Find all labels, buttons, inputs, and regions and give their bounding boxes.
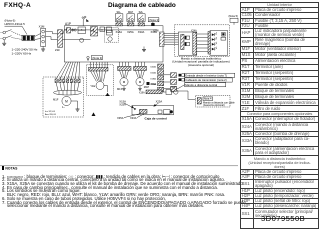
power supply PS block [91, 27, 98, 36]
connector X33A [138, 23, 144, 26]
svg-text:M1S: M1S [117, 87, 123, 91]
wired remote nota4 dashed box [196, 96, 231, 108]
svg-text:S2L: S2L [139, 11, 144, 14]
motor M1F [62, 96, 71, 105]
svg-text:1~: 1~ [62, 106, 65, 109]
svg-text:X40A: X40A [150, 66, 156, 69]
optional capacitor dashed box [105, 28, 119, 42]
diode bridge V1R [78, 27, 86, 34]
model title FXHQ-A [4, 2, 31, 9]
svg-text:X18A: X18A [150, 77, 156, 80]
relay K1 on A2P [185, 36, 190, 39]
Y1E connector strip [89, 67, 109, 71]
ground under X1M [42, 46, 44, 49]
svg-text:Nota 4: Nota 4 [204, 97, 212, 101]
svg-text:X33A: X33A [130, 116, 137, 120]
wireless receiver dashed box [175, 25, 230, 57]
noise filter Z1F [58, 30, 63, 48]
annotation mando central [185, 83, 226, 87]
svg-text:Aux 28,6 Ω: Aux 28,6 Ω [45, 113, 56, 116]
thermistor R1T [166, 90, 172, 95]
connector X35A mid [87, 56, 89, 58]
connector X15A [116, 23, 122, 26]
wire dashed L to cable block [12, 32, 23, 37]
expansion valve Y1E dashed box [87, 65, 114, 96]
svg-text:X2M: X2M [153, 29, 159, 33]
connector small 2 [107, 27, 112, 33]
svg-text:1~220V 60 Hz: 1~220V 60 Hz [12, 52, 32, 56]
svg-text:X15A: X15A [151, 83, 157, 86]
svg-text:X35A: X35A [117, 116, 124, 120]
supply ground [3, 40, 5, 43]
svg-text:(Nota 3): (Nota 3) [92, 56, 102, 60]
LED H3P [212, 43, 215, 46]
wire X1M to PCB upper [46, 32, 58, 34]
capacitor block [67, 28, 71, 33]
LED H2P [212, 38, 215, 41]
M1S fan wires [120, 70, 123, 77]
motor M1S [120, 78, 128, 86]
wire X1M to PCB lower [46, 37, 65, 40]
ground on PCB [143, 47, 145, 50]
connector stack column 2 [171, 73, 177, 78]
svg-text:R1T: R1T [172, 87, 177, 90]
wires A2P to A3P [197, 33, 208, 35]
drawing number [261, 214, 305, 223]
M1F connector pins [55, 77, 85, 82]
nota 3 mid label [92, 55, 103, 59]
svg-text:(Nota 5): (Nota 5) [229, 14, 239, 18]
svg-text:X25A: X25A [119, 102, 126, 106]
control box outline [132, 105, 174, 114]
internal bus wire [64, 29, 157, 31]
connector small 1 [100, 27, 105, 32]
KMP fan wires [136, 70, 139, 77]
wire cable to X1M lower [35, 39, 41, 40]
motor M1P [136, 78, 144, 86]
svg-text:(Asesoría opcional): (Asesoría opcional) [203, 104, 225, 107]
svg-text:Ins 32,5 Ω: Ins 32,5 Ω [45, 111, 55, 113]
parts table [240, 2, 319, 229]
LED H1P [212, 33, 215, 36]
annotation cableado transmision [179, 78, 182, 81]
svg-text:Z1F: Z1F [55, 48, 60, 52]
swing motor M1S connector [118, 66, 132, 70]
wire cable to X1M upper [35, 34, 41, 37]
supply terminal L [3, 31, 6, 34]
svg-text:Cableado de transmisión (nota: Cableado de transmisión (nota 2) [185, 78, 226, 82]
PCB A2P [178, 32, 196, 55]
svg-text:(Asesoría opcional): (Asesoría opcional) [188, 63, 214, 67]
svg-text:Mando a distancia central: Mando a distancia central [185, 83, 217, 87]
ground Y1E [104, 85, 108, 87]
relay K2 on A2P [185, 42, 190, 45]
separator line above notes [0, 165, 238, 167]
drain pump KMP connector [134, 66, 147, 70]
M1F winding fan [56, 83, 58, 91]
svg-text:X1M: X1M [39, 25, 45, 29]
wire nota4 to stack [177, 91, 196, 100]
svg-text:X25A: X25A [127, 30, 134, 34]
svg-text:S1L: S1L [117, 11, 122, 14]
ground M1F [71, 100, 77, 102]
LED H4P [212, 48, 215, 51]
svg-text:X24A: X24A [191, 29, 197, 32]
wires PCB to Y1E strip [90, 62, 92, 67]
svg-text:M: M [139, 80, 142, 84]
fan motor M1F dashed box [43, 77, 84, 117]
svg-text:H05VV-F3G2.5: H05VV-F3G2.5 [5, 22, 26, 26]
svg-text:X33A: X33A [138, 30, 145, 34]
svg-text:X19A: X19A [139, 91, 145, 94]
push button BS1 [222, 33, 226, 37]
wire dashed N to cable block [12, 38, 23, 40]
black triangle mark [92, 112, 96, 116]
nota 3 label top [148, 18, 159, 22]
svg-text:X15A: X15A [116, 30, 123, 34]
valve Y1E body [96, 82, 104, 90]
field cable marker [22, 35, 35, 41]
svg-text:(Nota 3): (Nota 3) [149, 18, 159, 22]
M1F winding [54, 90, 82, 95]
wires X2M to receiver [164, 32, 178, 34]
svg-text:M1P: M1P [144, 85, 150, 89]
connector stack column 1 [158, 64, 164, 68]
svg-text:Entrada desde el exterior (not: Entrada desde el exterior (nota 7) [185, 74, 227, 78]
supply terminal N [3, 37, 6, 40]
selector switch SS1 [221, 37, 226, 40]
connector X25A [128, 23, 134, 26]
fuse F1U above PCB [83, 19, 85, 26]
breaker switch poles [5, 30, 11, 32]
svg-text:M: M [65, 99, 68, 103]
diagram title [108, 2, 176, 9]
junction node dots [66, 29, 67, 30]
svg-text:X20A: X20A [150, 72, 156, 75]
connector X35A top [151, 23, 154, 26]
annotation entrada exterior [179, 74, 182, 77]
svg-text:X25A: X25A [156, 99, 163, 103]
wire Z1F to PCB [60, 30, 67, 34]
PCB A3P [210, 31, 228, 56]
svg-text:M: M [123, 80, 126, 84]
wires PCB to M1F pins [56, 62, 66, 79]
notes block [2, 166, 238, 208]
svg-text:Y1E: Y1E [90, 84, 95, 88]
C105 capacitor circles [72, 29, 74, 31]
connector X15A dot [147, 82, 150, 85]
svg-text:Caja de control: Caja de control [145, 117, 167, 121]
svg-text:A1P: A1P [65, 22, 71, 26]
svg-text:M1P: M1P [128, 11, 133, 14]
svg-text:M1F: M1F [53, 97, 59, 101]
Y1E fan wires [91, 71, 97, 82]
